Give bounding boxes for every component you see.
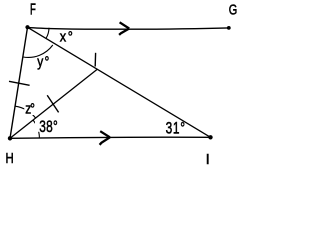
tick mark on HJ xyxy=(47,95,58,112)
angle arc z at H xyxy=(15,106,35,118)
arrow on ray HI xyxy=(100,131,110,145)
angle arc 38 at H xyxy=(33,120,39,138)
svg-text:z°: z° xyxy=(25,100,34,117)
svg-text:H: H xyxy=(6,150,14,167)
svg-text:x°: x° xyxy=(60,27,75,44)
tick mark on FH xyxy=(9,81,30,85)
label background for z deg xyxy=(24,103,34,116)
svg-text:y°: y° xyxy=(37,53,51,70)
svg-text:31°: 31° xyxy=(166,120,186,139)
angle arc x at F xyxy=(46,28,49,39)
vertex dot G xyxy=(227,26,231,30)
wire: ray H to I (bottom parallel line) xyxy=(10,137,211,138)
svg-text:I: I xyxy=(206,151,210,168)
wire: segment H to J (J on FI) xyxy=(10,69,97,138)
svg-text:F: F xyxy=(30,0,36,18)
svg-text:G: G xyxy=(229,1,238,18)
arrow on ray FG xyxy=(119,22,129,35)
vertex dot F xyxy=(25,25,29,29)
tick mark on FI near J xyxy=(94,53,96,67)
svg-text:38°: 38° xyxy=(39,118,58,137)
label background for 38 deg xyxy=(35,119,58,132)
angle arc y at F xyxy=(23,45,53,57)
wire: ray F to G (top parallel line) xyxy=(28,27,229,29)
wire: segment F to H xyxy=(10,27,28,138)
vertex dot I xyxy=(208,135,212,139)
wire: segment F to I xyxy=(28,27,211,137)
vertex dot H xyxy=(8,136,12,140)
